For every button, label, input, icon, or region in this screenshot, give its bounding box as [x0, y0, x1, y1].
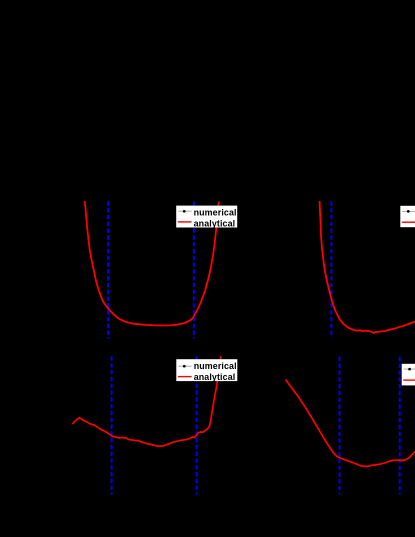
- subplot BL: blue dashed vline left: [111, 356, 113, 494]
- legend BR: numerical dot marker: [408, 368, 411, 371]
- svg-text:numerical: numerical: [194, 361, 237, 371]
- subplot TL: blue dashed vline right: [193, 201, 195, 338]
- subplot BR: blue dashed vline left: [339, 357, 341, 495]
- legend TL: numerical dot marker: [183, 210, 186, 213]
- svg-text:numerical: numerical: [194, 207, 237, 217]
- subplot TR: red analytical curve: [320, 201, 415, 333]
- legend TR: numerical handle line: [402, 210, 415, 212]
- legend TL: analytical red line: [178, 221, 192, 223]
- legend BL: white box: [176, 359, 237, 381]
- legend TR: white box (cut off at right edge): [400, 206, 415, 227]
- legend TR: numerical dot marker: [407, 210, 410, 213]
- legend BL: numerical dot marker: [183, 365, 186, 368]
- legend BR: white box (cut off at right edge): [402, 364, 415, 386]
- legend BL: numerical handle line: [178, 365, 191, 367]
- legend BL: analytical red line: [178, 376, 192, 378]
- subplot BR: blue dashed vline right: [399, 357, 401, 495]
- legend BR: analytical red line: [403, 379, 415, 381]
- subplot BL: blue dashed vline right: [196, 356, 198, 494]
- svg-text:analytical: analytical: [194, 372, 236, 382]
- subplot TL: blue dashed vline left: [107, 201, 109, 338]
- subplot TL: red analytical U-curve: [85, 201, 219, 326]
- subplot BR: red analytical noisy curve: [286, 380, 415, 467]
- svg-text:analytical: analytical: [194, 218, 236, 228]
- legend TL: white box: [176, 206, 237, 228]
- legend TL: numerical handle line: [178, 210, 191, 212]
- legend TR: analytical red line: [402, 221, 415, 223]
- subplot TR: blue dashed vline: [330, 201, 332, 337]
- legend BR: numerical handle line: [404, 368, 415, 370]
- subplot BL: red analytical noisy curve: [73, 356, 221, 446]
